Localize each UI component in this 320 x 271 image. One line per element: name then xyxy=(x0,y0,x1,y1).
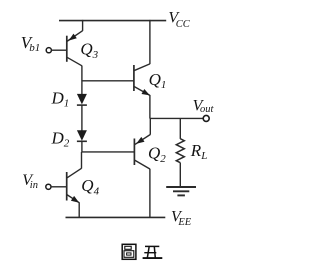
wire node A to Q1 base xyxy=(82,80,134,82)
wire VEE rail xyxy=(66,216,166,218)
wire Q1 collector to VCC rail xyxy=(149,20,151,64)
transistor Q4 xyxy=(67,168,82,202)
svg-text:Vin: Vin xyxy=(22,172,38,191)
svg-text:Q3: Q3 xyxy=(80,40,98,61)
ground xyxy=(166,187,196,195)
transistor Q1 xyxy=(134,64,150,96)
svg-text:D2: D2 xyxy=(51,128,70,149)
caption char 五 xyxy=(143,246,163,258)
wire Q3 collector to node A xyxy=(81,66,83,81)
svg-text:Q1: Q1 xyxy=(149,70,167,91)
svg-text:VEE: VEE xyxy=(171,209,192,228)
terminal Vb1 xyxy=(46,48,51,53)
diode D1 xyxy=(77,94,87,105)
svg-text:Vb1: Vb1 xyxy=(21,33,40,54)
wire Q3 emitter to VCC rail xyxy=(82,20,84,31)
wire D2 cathode to node B xyxy=(81,141,83,152)
wire VCC rail xyxy=(59,20,166,22)
svg-text:RL: RL xyxy=(190,141,208,162)
terminal Vout xyxy=(203,115,209,121)
transistor Q3 xyxy=(67,31,83,66)
wire output node xyxy=(150,117,203,119)
wire Vb1 to Q3 base xyxy=(52,49,67,51)
transistor Q2 xyxy=(134,135,150,170)
terminal Vin xyxy=(46,184,51,189)
wire Q4 collector to node B xyxy=(81,152,83,169)
wire RL to ground xyxy=(179,163,181,187)
svg-text:Q2: Q2 xyxy=(148,144,166,165)
wire Q2 collector to VEE rail xyxy=(149,169,151,218)
svg-text:Q4: Q4 xyxy=(81,176,99,197)
caption char 圖 xyxy=(122,244,136,259)
svg-text:Vout: Vout xyxy=(193,97,215,115)
wire Q2 emitter to output node xyxy=(149,119,151,135)
wire Q4 emitter to VEE rail xyxy=(78,202,80,217)
wire Q1 emitter to output node xyxy=(149,95,151,119)
svg-text:D1: D1 xyxy=(51,88,70,109)
wire node B to Q2 base xyxy=(82,151,134,153)
wire D1 cathode to D2 anode xyxy=(81,105,83,131)
resistor RL xyxy=(176,139,184,163)
wire Vin to Q4 base xyxy=(51,186,67,188)
diode D2 xyxy=(77,130,87,141)
wire node A to D1 anode xyxy=(81,81,83,95)
svg-text:VCC: VCC xyxy=(168,10,190,30)
wire output node to RL xyxy=(179,118,181,138)
